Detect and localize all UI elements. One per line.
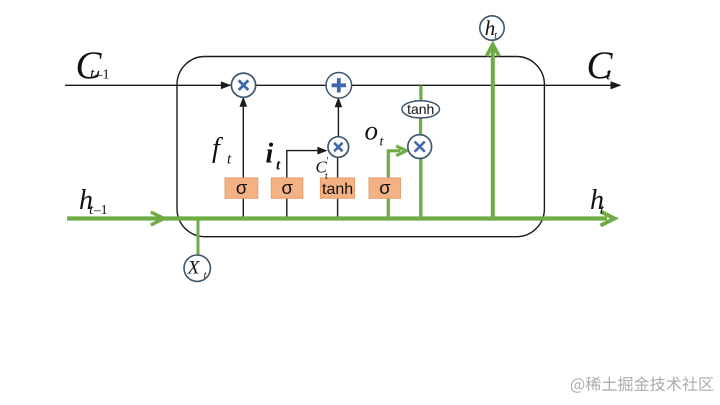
wire mult3 down to h line <box>419 158 422 219</box>
label C-tilde_t <box>316 156 329 182</box>
label o_t <box>365 116 385 150</box>
multiplier forget gate <box>231 73 255 97</box>
svg-text:X: X <box>187 257 201 278</box>
arrowhead into adder <box>335 97 343 107</box>
wire output gate elbow <box>388 151 400 218</box>
wire forget gate vertical <box>242 99 244 218</box>
wire cell to tanh branch <box>419 86 422 103</box>
gate box sigma f <box>225 177 258 198</box>
multiplier output gate <box>408 135 432 159</box>
wire C cell-state line <box>65 84 617 86</box>
arrowhead into output multiplier chevron <box>396 146 406 156</box>
arrowhead into input multiplier <box>317 147 327 155</box>
arrowhead into forget-gate multiplier <box>221 81 231 89</box>
wire candidate vertical <box>337 156 339 218</box>
svg-text:t: t <box>90 66 95 83</box>
svg-text:tanh: tanh <box>407 101 434 117</box>
wire hidden-state h line <box>67 216 607 220</box>
gate box sigma o <box>369 177 401 198</box>
arrowhead h mid chevron <box>151 212 164 225</box>
arrowhead up to h_t circle chevron <box>487 45 499 57</box>
svg-text:t: t <box>494 30 497 41</box>
svg-text:t: t <box>325 171 328 182</box>
svg-text:–1: –1 <box>95 68 110 83</box>
svg-text:σ: σ <box>379 177 391 198</box>
label h_t-1 <box>79 185 108 218</box>
wire h_t up branch <box>491 47 495 219</box>
label C_t <box>587 44 614 87</box>
multiplier input gate <box>328 137 349 158</box>
gate box tanh candidate <box>320 178 354 198</box>
label i_t <box>266 139 282 174</box>
svg-text:t: t <box>204 270 207 281</box>
svg-text:tanh: tanh <box>322 181 353 198</box>
label C_t-1 <box>76 44 110 87</box>
wire input gate elbow <box>287 151 325 218</box>
adder plus circle <box>326 73 352 99</box>
svg-text:–1: –1 <box>93 202 108 217</box>
wire mult2 to adder <box>337 100 339 138</box>
arrowhead C_t output <box>611 81 622 89</box>
svg-text:o: o <box>365 116 379 146</box>
watermark juejin community <box>571 376 713 392</box>
label h_t <box>590 185 605 218</box>
svg-text:′: ′ <box>327 156 329 167</box>
svg-text:σ: σ <box>236 177 248 198</box>
gate box sigma i <box>271 177 303 198</box>
tanh ellipse <box>402 101 440 118</box>
node h_t output circle <box>480 16 504 42</box>
arrowhead h_t output chevron <box>601 212 615 226</box>
wire tanh to mult3 <box>419 117 422 136</box>
wire x_t input branch <box>197 219 200 256</box>
svg-text:i: i <box>266 139 274 170</box>
LSTM cell body rounded rectangle <box>177 57 544 237</box>
arrowhead forget vertical <box>240 97 248 107</box>
node X_t input circle <box>184 255 210 281</box>
label f_t <box>212 133 232 168</box>
svg-text:σ: σ <box>281 177 293 198</box>
